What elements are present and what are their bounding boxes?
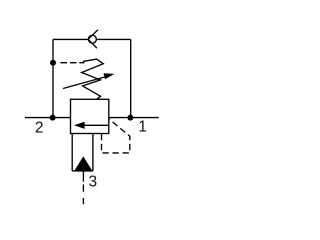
svg-text:1: 1 bbox=[138, 119, 147, 136]
svg-text:2: 2 bbox=[35, 119, 44, 136]
svg-text:3: 3 bbox=[89, 173, 98, 190]
